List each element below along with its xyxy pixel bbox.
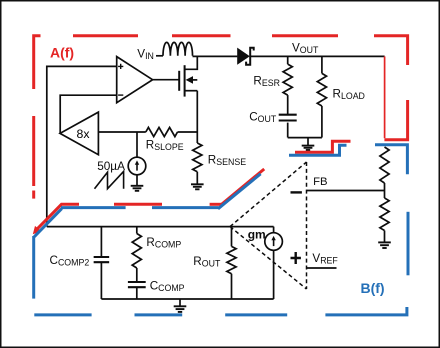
svg-text:A(f): A(f) (50, 45, 74, 61)
svg-text:gm: gm (248, 228, 266, 242)
svg-text:B(f): B(f) (361, 280, 385, 296)
svg-text:50µA: 50µA (97, 159, 125, 173)
svg-text:8x: 8x (77, 127, 91, 141)
svg-text:FB: FB (313, 176, 327, 188)
